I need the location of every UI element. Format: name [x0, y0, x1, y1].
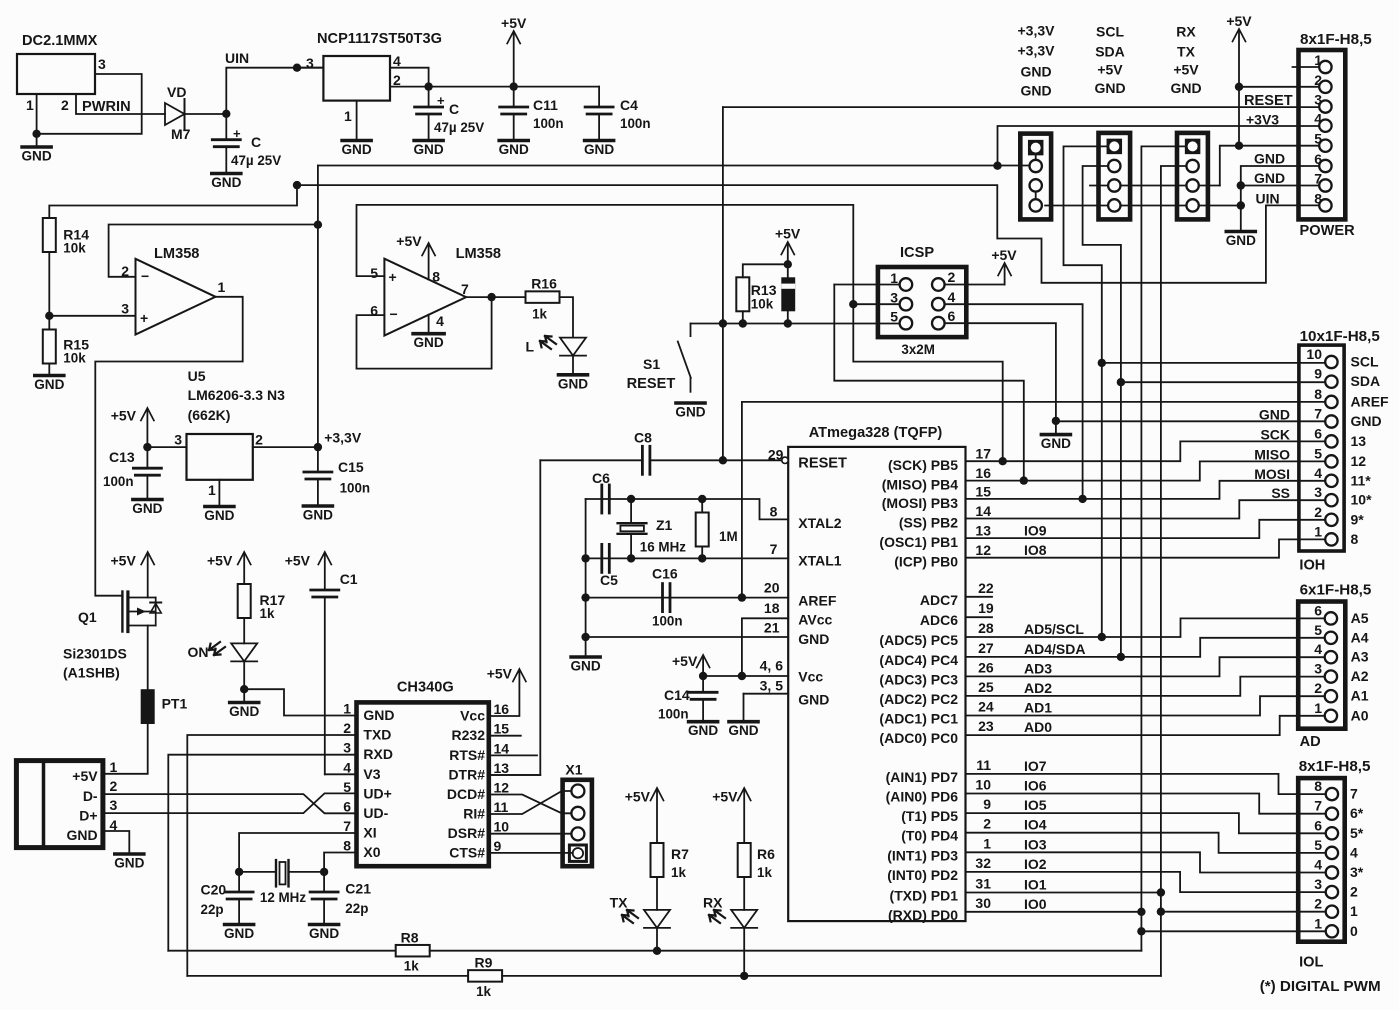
svg-text:R9: R9 — [475, 955, 493, 971]
svg-text:+5V: +5V — [712, 789, 738, 805]
svg-text:C11: C11 — [533, 97, 558, 113]
svg-text:GND: GND — [1226, 233, 1256, 248]
svg-text:6: 6 — [948, 308, 956, 324]
svg-text:19: 19 — [978, 600, 994, 616]
svg-text:C: C — [449, 101, 459, 117]
junction SCK row — [999, 457, 1007, 465]
capacitor C21 22p — [310, 872, 371, 923]
wire POWER pin2 — [1239, 86, 1320, 88]
ground ICSP gnd net — [1041, 435, 1071, 452]
resistor R13 10k — [736, 277, 776, 311]
svg-text:10k: 10k — [63, 351, 86, 366]
svg-text:IO9: IO9 — [1024, 523, 1047, 539]
pin 2 label op1 — [121, 263, 129, 279]
wire U5 output — [253, 446, 318, 448]
wire R15 to gnd — [48, 364, 50, 375]
svg-text:PT1: PT1 — [162, 696, 188, 712]
svg-text:+5V: +5V — [396, 233, 422, 249]
connector IOL 8x1F-H8,5 — [1298, 758, 1371, 971]
svg-text:1k: 1k — [476, 984, 491, 999]
wire IO9 to IOH2 — [966, 520, 1326, 538]
svg-text:1: 1 — [26, 97, 34, 113]
wire R16 to LED L — [560, 297, 574, 338]
svg-text:+5V: +5V — [487, 666, 513, 682]
svg-text:R232: R232 — [452, 727, 486, 743]
svg-text:5: 5 — [890, 309, 898, 325]
svg-text:3: 3 — [1314, 484, 1322, 500]
wire AD0 row — [966, 716, 1325, 735]
wire AREF row — [586, 597, 789, 599]
svg-text:U5: U5 — [188, 368, 206, 384]
pins AD — [1325, 612, 1337, 722]
wire AD2 row — [966, 677, 1325, 696]
svg-text:AVcc: AVcc — [798, 612, 832, 628]
pin 3,5 GND label — [760, 678, 830, 708]
pin 17 (SCK) — [888, 446, 991, 474]
svg-text:IO6: IO6 — [1024, 778, 1047, 794]
junction TX led — [653, 947, 661, 955]
svg-text:7: 7 — [1350, 786, 1358, 802]
wire ADC7 stub — [966, 596, 993, 598]
wire U5 input — [147, 446, 186, 448]
svg-text:+5V: +5V — [501, 15, 527, 31]
svg-text:AD3: AD3 — [1024, 660, 1052, 676]
svg-text:GND: GND — [570, 659, 600, 674]
wire jack pin3 to GND — [37, 74, 142, 134]
svg-text:32: 32 — [975, 855, 991, 871]
svg-text:GND: GND — [1351, 413, 1382, 429]
wire Vcc CH340 — [489, 671, 520, 716]
wire TXD — [187, 735, 356, 976]
capacitor C6 — [592, 470, 610, 513]
junction SCL IOH10 — [1098, 359, 1106, 367]
pin 13 (OSC1) — [879, 523, 1046, 551]
svg-text:ON: ON — [188, 644, 209, 660]
wire RESET to ICSP pin5 — [691, 323, 900, 325]
svg-text:UD-: UD- — [363, 805, 388, 821]
svg-text:C4: C4 — [620, 97, 638, 113]
wire SDA to IOH9 — [1121, 381, 1325, 383]
wire gnd rail — [585, 499, 587, 655]
wire net RESET vertical — [722, 107, 724, 460]
svg-text:+5V: +5V — [991, 247, 1017, 263]
ground input cap — [211, 174, 241, 191]
net labels IOL — [1350, 786, 1364, 939]
svg-text:IOL: IOL — [1299, 955, 1323, 971]
svg-text:GND: GND — [1094, 80, 1125, 96]
svg-text:23: 23 — [978, 718, 994, 734]
svg-text:RESET: RESET — [1244, 93, 1293, 109]
svg-text:IO3: IO3 — [1024, 836, 1047, 852]
svg-text:SS: SS — [1271, 485, 1290, 501]
svg-text:6x1F-H8,5: 6x1F-H8,5 — [1300, 582, 1372, 599]
wire GND to IOH7 — [1056, 420, 1325, 422]
svg-text:GND: GND — [413, 335, 443, 350]
junction +5V R13 — [784, 260, 792, 268]
svg-text:GND: GND — [558, 376, 588, 391]
svg-text:(ADC5) PC5: (ADC5) PC5 — [879, 632, 958, 648]
wire XI — [239, 833, 356, 872]
svg-text:GND: GND — [499, 142, 529, 157]
svg-text:(A1SHB): (A1SHB) — [63, 665, 120, 681]
resistor R16 1k — [526, 276, 560, 322]
svg-text:5: 5 — [1314, 622, 1322, 638]
power +5V CH340 — [487, 666, 526, 682]
svg-text:AD5/SCL: AD5/SCL — [1024, 621, 1084, 637]
svg-text:XTAL2: XTAL2 — [798, 515, 842, 531]
svg-text:7: 7 — [1314, 798, 1322, 814]
junction RESET C8 — [719, 456, 727, 464]
pin 22 ADC7 — [920, 580, 994, 608]
svg-text:XTAL1: XTAL1 — [798, 553, 842, 569]
wire net +3V3 to POWER pin4 — [998, 126, 1320, 166]
svg-text:ATmega328 (TQFP): ATmega328 (TQFP) — [809, 425, 943, 441]
svg-text:X0: X0 — [363, 844, 380, 860]
svg-text:TX: TX — [1177, 44, 1196, 60]
diode VD M7 — [165, 84, 226, 142]
svg-text:GND: GND — [34, 377, 64, 392]
svg-text:GND: GND — [798, 692, 829, 708]
svg-text:C1: C1 — [340, 571, 358, 587]
svg-text:2: 2 — [1314, 896, 1322, 912]
svg-text:GND: GND — [21, 149, 51, 164]
svg-text:+5V: +5V — [1226, 13, 1252, 29]
svg-text:(RXD) PD0: (RXD) PD0 — [888, 907, 958, 923]
svg-text:(ADC4) PC4: (ADC4) PC4 — [879, 652, 958, 668]
wire net UIN to POWER pin8 — [297, 185, 1320, 283]
svg-text:16: 16 — [494, 701, 510, 717]
pin 12 (ICP) — [894, 542, 1047, 570]
svg-text:4: 4 — [436, 313, 444, 329]
ground C4 — [584, 141, 614, 158]
svg-text:1: 1 — [218, 279, 226, 295]
wire R7 to TX led — [656, 877, 658, 910]
wire net GND connectors — [1045, 205, 1241, 207]
svg-text:3*: 3* — [1350, 864, 1364, 880]
svg-text:X1: X1 — [565, 762, 582, 778]
svg-text:6*: 6* — [1350, 805, 1364, 821]
svg-text:2: 2 — [255, 432, 263, 448]
svg-text:3: 3 — [1314, 876, 1322, 892]
svg-text:CH340G: CH340G — [397, 680, 454, 696]
pin 6 label icsp — [948, 308, 956, 324]
svg-text:LM358: LM358 — [154, 246, 199, 262]
svg-text:GND: GND — [798, 631, 829, 647]
svg-text:(OSC1) PB1: (OSC1) PB1 — [879, 534, 958, 550]
capacitor C 47u 25V (input) — [212, 114, 281, 172]
ground U5 — [204, 507, 234, 524]
svg-text:IO4: IO4 — [1024, 817, 1047, 833]
pin 4,6 Vcc label — [760, 658, 824, 685]
pin 1 label NCP — [344, 108, 352, 124]
wire USB D+ crossover — [103, 793, 357, 813]
net labels IOH inner — [1254, 407, 1290, 502]
svg-text:AREF: AREF — [798, 593, 837, 609]
svg-text:+5V: +5V — [672, 653, 698, 669]
pins IOH — [1325, 356, 1337, 546]
junction +3,3V branch — [993, 162, 1001, 170]
svg-text:22p: 22p — [201, 902, 224, 917]
svg-text:ADC6: ADC6 — [920, 612, 958, 628]
svg-text:26: 26 — [978, 659, 994, 675]
power +5V reset — [775, 226, 801, 278]
svg-text:3: 3 — [121, 301, 129, 317]
svg-text:+3V3: +3V3 — [1246, 112, 1279, 128]
pin 14 (SS) — [899, 503, 991, 531]
wire +5V rail NCP out — [390, 86, 599, 88]
junction jack GND — [32, 130, 40, 138]
svg-text:GND: GND — [303, 508, 333, 523]
svg-text:10*: 10* — [1351, 492, 1373, 508]
ground LED ON — [229, 703, 259, 720]
svg-text:NCP1117ST50T3G: NCP1117ST50T3G — [317, 31, 442, 47]
wire op1 noninverting input — [49, 315, 135, 317]
junction UIN-NCP — [293, 63, 301, 71]
svg-text:C16: C16 — [652, 566, 678, 582]
svg-text:DC2.1MMX: DC2.1MMX — [22, 33, 98, 49]
wire LED L to gnd — [572, 356, 574, 373]
pin 32 (INT0) PD2 — [887, 855, 1047, 883]
resistor R9 1k — [468, 955, 502, 1000]
diode D1 (reset) — [781, 277, 795, 323]
connector ICSP 3x2M — [878, 245, 966, 357]
svg-text:+5V: +5V — [72, 768, 98, 784]
svg-text:4: 4 — [948, 289, 956, 305]
ground NCP — [341, 141, 371, 158]
svg-text:25: 25 — [978, 679, 994, 695]
power +5V U5 — [111, 408, 154, 448]
junction q2 left — [235, 868, 243, 876]
svg-text:IO7: IO7 — [1024, 758, 1047, 774]
svg-text:47µ 25V: 47µ 25V — [231, 153, 281, 168]
svg-text:S1: S1 — [643, 356, 660, 372]
op-amp U1A LM358 — [136, 246, 216, 335]
junction 1M bottom — [698, 554, 706, 562]
svg-text:10: 10 — [975, 777, 991, 793]
ground S1 — [675, 403, 705, 420]
ground C21 — [309, 925, 339, 942]
svg-text:IOH: IOH — [1299, 558, 1325, 574]
svg-text:GND: GND — [675, 405, 705, 420]
node UIN — [225, 50, 323, 114]
svg-text:A2: A2 — [1351, 668, 1369, 684]
wire IO0 row — [966, 911, 1142, 913]
svg-text:2: 2 — [110, 778, 118, 794]
wire net RESET horizontal — [723, 106, 1320, 108]
svg-text:−: − — [141, 268, 149, 284]
svg-text:GND: GND — [1254, 170, 1285, 186]
svg-text:(T0) PD4: (T0) PD4 — [901, 828, 958, 844]
svg-text:13: 13 — [975, 523, 991, 539]
svg-text:11: 11 — [976, 757, 991, 773]
pin 5 label op2 — [370, 265, 378, 281]
junction rail gnd21 — [581, 633, 589, 641]
pin 25 (ADC2) PC2 — [879, 679, 1052, 707]
svg-text:100n: 100n — [340, 481, 371, 496]
junction AD4 SDA — [1117, 653, 1125, 661]
wire gnd to CH340 pin1 — [244, 689, 356, 715]
svg-text:TXD: TXD — [363, 727, 391, 743]
ground GND35 — [728, 722, 758, 739]
svg-text:A1: A1 — [1351, 688, 1369, 704]
svg-text:9*: 9* — [1351, 511, 1365, 527]
svg-text:5: 5 — [1314, 445, 1322, 461]
wire R6 to RX led — [743, 877, 745, 910]
svg-text:RX: RX — [703, 895, 723, 911]
junction gnd pin7 — [1237, 181, 1245, 189]
junction +5V pin2 — [1235, 83, 1243, 91]
wire GND21 row — [586, 636, 789, 638]
svg-text:1: 1 — [1350, 903, 1358, 919]
wire AVcc riser — [742, 618, 788, 676]
net labels IOH right — [1351, 354, 1390, 547]
svg-text:(TXD) PD1: (TXD) PD1 — [890, 888, 959, 904]
svg-text:2: 2 — [61, 97, 69, 113]
svg-text:GND: GND — [1259, 407, 1290, 423]
svg-text:4, 6: 4, 6 — [760, 658, 784, 674]
svg-text:AD0: AD0 — [1024, 719, 1052, 735]
svg-text:Vcc: Vcc — [798, 669, 823, 685]
resistor R14 10k — [43, 218, 89, 256]
svg-text:GND: GND — [1041, 436, 1071, 451]
pin 29 RESET — [768, 447, 847, 472]
pin 1 label op1 — [218, 279, 226, 295]
pin 16 (MISO) — [882, 465, 991, 493]
led ON — [188, 642, 258, 661]
svg-text:RTS#: RTS# — [449, 747, 485, 763]
power +5V ICSP — [991, 247, 1017, 285]
svg-text:PWRIN: PWRIN — [82, 99, 131, 115]
pin 26 (ADC3) PC3 — [879, 659, 1052, 687]
svg-text:D+: D+ — [79, 808, 97, 824]
wire DCD to X1-2 — [489, 795, 572, 814]
crystal Z1 16 MHz — [618, 499, 687, 558]
svg-text:17: 17 — [975, 446, 991, 462]
wire DTR — [489, 774, 541, 776]
svg-text:1k: 1k — [532, 307, 547, 322]
power +5V main — [501, 15, 527, 87]
junction +3,3V opamp feedback — [314, 221, 322, 229]
wire Vcc row — [703, 675, 788, 677]
svg-text:12: 12 — [975, 542, 991, 558]
wire TXD net bottom — [187, 975, 468, 977]
svg-text:+5V: +5V — [1173, 62, 1199, 78]
junction +3,3V node — [314, 443, 322, 451]
svg-text:AD1: AD1 — [1024, 700, 1052, 716]
pin 24 (ADC1) PC1 — [879, 699, 1052, 727]
connector X1 — [563, 762, 592, 867]
svg-text:(AIN0) PD6: (AIN0) PD6 — [886, 789, 959, 805]
power +5V led on — [207, 552, 251, 584]
svg-text:1: 1 — [1314, 700, 1322, 716]
svg-text:3: 3 — [1314, 661, 1322, 677]
svg-text:GND: GND — [66, 827, 97, 843]
power +5V Vcc — [672, 653, 710, 676]
power +5V R6 — [712, 788, 751, 843]
svg-text:1: 1 — [208, 482, 216, 498]
svg-text:1: 1 — [983, 835, 991, 851]
wire DSR to X1-3 — [489, 833, 572, 835]
wire NCP pin4 — [390, 68, 429, 87]
svg-text:+5V: +5V — [111, 408, 137, 424]
pin 8 label op2 — [432, 269, 440, 285]
svg-text:+5V: +5V — [775, 226, 801, 242]
wire IO1 row — [966, 892, 1161, 894]
svg-text:MISO: MISO — [1254, 446, 1290, 462]
svg-text:A5: A5 — [1351, 610, 1369, 626]
svg-text:100n: 100n — [652, 614, 683, 629]
svg-text:+5V: +5V — [625, 789, 651, 805]
svg-text:4: 4 — [343, 759, 351, 775]
wire RXD — [168, 755, 356, 951]
wire op2 gnd pin — [428, 315, 430, 332]
wire USB D- crossover — [103, 794, 357, 813]
svg-text:1: 1 — [343, 701, 351, 717]
pin 11 (AIN1) PD7 — [886, 757, 1047, 785]
wire C1 to V3 — [325, 773, 357, 775]
svg-text:LM358: LM358 — [456, 246, 501, 262]
junction RX io0 — [1137, 908, 1145, 916]
junction +5V pin5 — [1235, 142, 1243, 150]
svg-text:8: 8 — [1351, 531, 1359, 547]
wire SCK to IOH6 — [966, 441, 1326, 461]
svg-text:RXD: RXD — [363, 746, 393, 762]
junction AVcc vcc — [738, 672, 746, 680]
svg-text:(MOSI) PB3: (MOSI) PB3 — [882, 495, 958, 511]
svg-text:DTR#: DTR# — [448, 767, 485, 783]
pin 30 (RXD) PD0 — [888, 895, 1047, 923]
svg-text:ADC7: ADC7 — [920, 592, 958, 608]
svg-text:(MISO) PB4: (MISO) PB4 — [882, 477, 958, 493]
wire TXD net to TX vertical — [502, 975, 1161, 977]
wire crystal row — [239, 871, 324, 873]
ground jack — [21, 134, 51, 164]
svg-text:22p: 22p — [345, 901, 368, 916]
junction AD5 SCL — [1098, 633, 1106, 641]
svg-text:(ADC2) PC2: (ADC2) PC2 — [879, 691, 958, 707]
wire IO5 to IOL6 — [966, 813, 1326, 833]
svg-text:C13: C13 — [109, 449, 135, 465]
svg-text:8: 8 — [770, 504, 778, 520]
svg-text:XI: XI — [363, 825, 376, 841]
svg-text:+: + — [389, 269, 397, 285]
resistor R17 1k — [238, 584, 286, 621]
pin 3 label op1 — [121, 301, 129, 317]
svg-text:13: 13 — [1351, 433, 1367, 449]
pin 3 label U5 — [174, 432, 182, 448]
svg-text:10x1F-H8,5: 10x1F-H8,5 — [1300, 328, 1381, 345]
ground C20 — [224, 925, 254, 942]
icsp pins — [900, 278, 945, 329]
junction U5 in C13 — [143, 443, 151, 451]
wire POWER pin7 — [1241, 185, 1320, 187]
wire XTAL2 row — [586, 499, 789, 519]
svg-text:A0: A0 — [1351, 707, 1369, 723]
wire U5 gnd pin — [218, 480, 220, 505]
svg-text:AREF: AREF — [1351, 393, 1390, 409]
switch S1 RESET — [627, 324, 691, 393]
svg-text:4: 4 — [1314, 641, 1322, 657]
svg-text:GND: GND — [224, 926, 254, 941]
svg-text:+5V: +5V — [110, 553, 136, 569]
svg-text:(*) DIGITAL PWM: (*) DIGITAL PWM — [1260, 978, 1381, 995]
svg-text:GND: GND — [1170, 80, 1201, 96]
svg-text:2: 2 — [393, 72, 401, 88]
junction 1M top — [698, 495, 706, 503]
svg-text:GND: GND — [229, 704, 259, 719]
wire R17 to LED — [243, 618, 245, 643]
pin 3 label NCP — [306, 55, 314, 71]
